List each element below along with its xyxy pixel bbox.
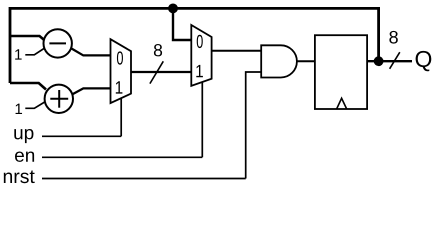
wire nrst riser into AND gate (246, 72, 262, 179)
signal label en (15, 151, 34, 161)
AND gate (261, 45, 297, 77)
wire mux M1 select (120, 98, 122, 136)
mux M2 port label 1 (196, 65, 203, 77)
wire adder output to mux M1 input 1 (72, 88, 111, 94)
wire AND output to flip-flop D input (297, 60, 315, 62)
signal label nrst (4, 170, 35, 183)
wire nrst (42, 178, 246, 180)
signal label Q (416, 51, 432, 71)
D flip-flop (315, 35, 367, 109)
wire en (42, 156, 202, 158)
wire constant 1 to subtractor (25, 48, 45, 55)
wire feedback into adder (10, 83, 46, 90)
wire mux M2 select (201, 82, 203, 157)
signal label up (14, 129, 33, 143)
bus width label 8 (154, 44, 162, 56)
subtractor circle (44, 29, 72, 57)
wire subtractor output to mux M1 input 0 (72, 49, 111, 56)
constant 1 label (adder input) (16, 104, 22, 114)
clock triangle (337, 98, 347, 109)
mux M2 port label 0 (197, 35, 203, 48)
wire mux M2 output to AND gate (212, 50, 262, 52)
bus width label 8 (Q) (389, 31, 397, 44)
wire Q output (367, 60, 412, 62)
junction dot top (168, 3, 178, 13)
wire mux M1 output to mux M2 input 1 (131, 71, 191, 73)
bus width slash Q (390, 52, 400, 69)
wire up (42, 135, 121, 137)
mux M1 port label 0 (117, 51, 123, 64)
wire feedback to mux M2 input 0 (173, 8, 191, 40)
wire feedback bus top (10, 8, 379, 83)
junction dot Q (374, 56, 384, 66)
constant 1 label (subtractor input) (15, 49, 21, 59)
wire branch to subtractor (10, 36, 46, 42)
adder circle (45, 85, 73, 113)
wire constant 1 to adder (25, 102, 45, 109)
mux M1 port label 1 (116, 81, 123, 93)
mux M1 (111, 39, 132, 103)
bus width slash 8 (150, 61, 163, 83)
mux M2 (191, 25, 211, 86)
